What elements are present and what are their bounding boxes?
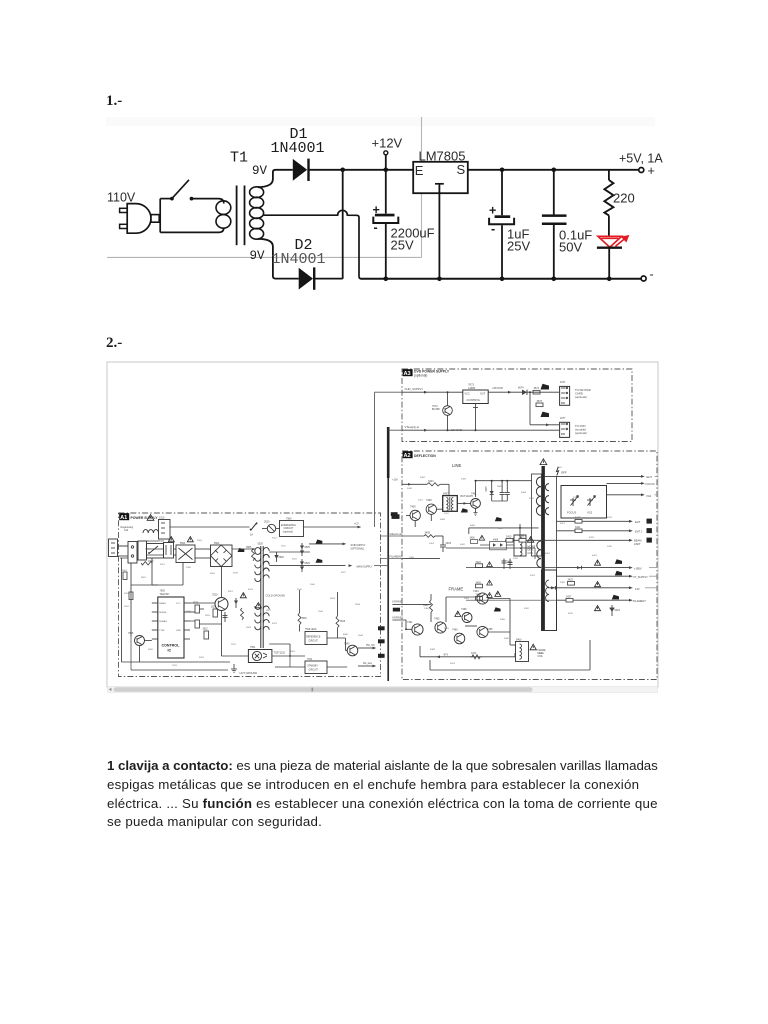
svg-text:3507: 3507 xyxy=(160,564,166,566)
svg-text:2409: 2409 xyxy=(461,479,467,481)
posistor xyxy=(262,521,280,533)
A1 dash-dot box xyxy=(119,513,381,677)
IC pins right xyxy=(184,603,190,639)
svg-text:Rst_Gen: Rst_Gen xyxy=(363,662,373,665)
resistor 3674 xyxy=(533,387,540,394)
junction dot C2 ground xyxy=(500,277,505,282)
svg-text:3510: 3510 xyxy=(264,521,270,524)
svg-text:5407: 5407 xyxy=(443,493,449,496)
plug prong top xyxy=(120,208,128,212)
resistor boxes left xyxy=(123,562,152,600)
warning frame coil xyxy=(530,644,536,650)
wire LED to ground xyxy=(608,248,610,279)
capacitor C2 top plate xyxy=(495,215,511,218)
svg-text:BUT11APX: BUT11APX xyxy=(461,495,474,498)
svg-text:(optional): (optional) xyxy=(575,431,587,435)
main vertical bus xyxy=(387,429,389,681)
junction dot C3 top xyxy=(552,168,557,173)
wire beam limit row xyxy=(505,536,652,546)
svg-text:3544: 3544 xyxy=(330,598,336,600)
capacitor C1 top plate xyxy=(375,214,395,217)
wire VT supply row xyxy=(557,571,658,579)
svg-text:A1: A1 xyxy=(120,515,127,521)
svg-text:3462: 3462 xyxy=(524,608,530,610)
svg-text:(optional): (optional) xyxy=(414,373,427,377)
svg-text:2504: 2504 xyxy=(197,540,203,542)
line filter small box xyxy=(164,543,174,559)
svg-text:3461: 3461 xyxy=(444,628,450,630)
zigzag mid xyxy=(241,608,244,620)
svg-text:6402: 6402 xyxy=(460,544,466,546)
gap wire filament xyxy=(381,557,403,559)
svg-text:2404: 2404 xyxy=(429,543,435,545)
svg-text:TCET1103: TCET1103 xyxy=(274,652,286,655)
terminal output plus circle xyxy=(639,168,644,173)
svg-text:3540: 3540 xyxy=(310,584,316,586)
heatsink flag frame xyxy=(494,607,501,611)
svg-text:1500: 1500 xyxy=(145,549,151,551)
transistor 7674 xyxy=(432,392,452,430)
secondary winding loop 2 xyxy=(250,197,264,208)
main vertical bus thick part xyxy=(387,427,390,478)
resistor 3546 xyxy=(336,592,346,638)
svg-text:L4960: L4960 xyxy=(468,386,476,390)
svg-text:6520: 6520 xyxy=(279,556,285,559)
wire VG2 row xyxy=(607,493,658,497)
svg-text:VTsupply-H: VTsupply-H xyxy=(405,425,419,429)
svg-text:OUT: OUT xyxy=(480,393,486,396)
gray artifact vertical line xyxy=(421,117,423,257)
optocoupler xyxy=(248,646,285,662)
A2 tag xyxy=(403,451,413,459)
focus box xyxy=(561,486,607,519)
left tag frame xyxy=(393,608,400,612)
warning transformer xyxy=(187,537,193,542)
hot ground symbol xyxy=(231,664,257,675)
svg-text:3474: 3474 xyxy=(471,652,477,655)
svg-text:6522: 6522 xyxy=(292,559,298,561)
svg-text:VCC: VCC xyxy=(465,393,470,396)
warning mid a xyxy=(240,593,246,598)
svg-text:2416: 2416 xyxy=(513,558,519,560)
wire switch to primary xyxy=(192,199,224,204)
connector keypad label xyxy=(575,388,591,399)
wire VT supply H xyxy=(402,425,559,431)
svg-text:3406: 3406 xyxy=(470,538,476,540)
A1 border tag a xyxy=(378,626,385,630)
wire C3 to ground xyxy=(553,225,555,279)
svg-text:POWER SUPPLY: POWER SUPPLY xyxy=(131,516,159,520)
secondary winding loop 5 xyxy=(250,228,264,239)
svg-text:6674: 6674 xyxy=(518,386,524,389)
svg-text:3474: 3474 xyxy=(450,663,456,665)
svg-text:3426: 3426 xyxy=(476,581,482,584)
sub supply arrow xyxy=(309,543,366,551)
svg-text:FOCUS: FOCUS xyxy=(567,511,576,515)
svg-text:2506: 2506 xyxy=(186,567,192,569)
wire branch to connector 2 xyxy=(529,391,559,426)
wire mid row line xyxy=(469,527,539,534)
wire frame bottom xyxy=(430,640,590,670)
svg-text:2423: 2423 xyxy=(506,536,512,539)
frame coil labels xyxy=(538,649,547,658)
svg-text:Video/mute: Video/mute xyxy=(390,532,404,536)
svg-text:(optional): (optional) xyxy=(283,530,293,533)
transistor 7605 xyxy=(128,632,145,646)
resistor cluster 3428 xyxy=(466,593,557,601)
wire frame mid xyxy=(465,599,510,633)
OFF bolt xyxy=(557,467,567,476)
wire A3 feed vertical xyxy=(374,392,376,527)
wire energizing out xyxy=(304,522,362,528)
svg-text:3419: 3419 xyxy=(589,537,595,539)
gap wire video xyxy=(381,535,403,537)
svg-text:2520: 2520 xyxy=(186,611,192,613)
chopper transformer 5520 xyxy=(255,543,269,648)
svg-text:3515: 3515 xyxy=(205,615,211,617)
svg-text:2465: 2465 xyxy=(500,619,506,621)
svg-text:7461: 7461 xyxy=(407,621,413,624)
wire opto right xyxy=(272,655,305,657)
sense resistor wires xyxy=(190,612,222,624)
wires ic to fet xyxy=(190,603,222,656)
svg-text:3423: 3423 xyxy=(519,536,525,539)
svg-text:2509: 2509 xyxy=(233,573,239,575)
plug nub xyxy=(151,215,159,223)
wire chopper right top xyxy=(269,552,345,566)
sprinkle labels A2 xyxy=(407,467,613,655)
diode D1 triangle xyxy=(293,159,307,181)
warning A1 xyxy=(147,515,154,521)
capacitor C3 plate top xyxy=(542,214,567,217)
warning filter xyxy=(168,537,174,542)
svg-text:CTRL: CTRL xyxy=(159,630,165,632)
diode pair 6526 xyxy=(300,559,311,572)
wire +12V down xyxy=(385,155,387,170)
secondary winding loop 4 xyxy=(250,218,264,229)
switch SW1 contact left xyxy=(170,197,174,201)
wire secondary bottom to D2 xyxy=(258,239,299,279)
AC inlet connector xyxy=(120,541,147,563)
svg-text:6540: 6540 xyxy=(343,634,349,636)
s-correction caps xyxy=(502,559,513,570)
svg-text:HOT GROUND: HOT GROUND xyxy=(240,671,258,675)
svg-text:3501: 3501 xyxy=(141,577,147,579)
wires standby xyxy=(327,638,347,667)
svg-text:2402: 2402 xyxy=(420,477,426,479)
svg-text:7580: 7580 xyxy=(286,517,292,520)
svg-text:3422: 3422 xyxy=(476,561,482,564)
flyback right rail xyxy=(556,476,558,600)
flyback right marks xyxy=(545,484,549,515)
reference circuit box xyxy=(305,628,327,644)
junction dot D1 node xyxy=(340,168,345,173)
svg-text:+5V, 1A: +5V, 1A xyxy=(619,151,663,165)
svg-text:+5P-DVD: +5P-DVD xyxy=(492,386,503,390)
svg-text:A2: A2 xyxy=(404,453,411,459)
svg-text:PW_ON: PW_ON xyxy=(366,645,375,647)
svg-text:3524: 3524 xyxy=(199,657,205,659)
svg-text:REFERENCE: REFERENCE xyxy=(306,636,321,638)
svg-text:SENSE: SENSE xyxy=(159,612,167,614)
secondary winding loop 1 xyxy=(250,187,264,198)
svg-text:3427: 3427 xyxy=(566,596,572,599)
gray artifact horizontal line xyxy=(107,256,422,258)
flyback primary winding xyxy=(536,477,541,515)
svg-text:+CV: +CV xyxy=(354,522,359,525)
wire D2 to node xyxy=(314,278,343,280)
junction dot +12V xyxy=(384,168,389,173)
svg-text:6412: 6412 xyxy=(498,528,504,530)
svg-text:6527: 6527 xyxy=(341,572,347,574)
svg-text:2A: 2A xyxy=(250,534,253,537)
svg-text:3417: 3417 xyxy=(560,523,566,525)
switch SW1 blade xyxy=(172,180,189,199)
svg-text:3412: 3412 xyxy=(444,513,450,515)
wire resistor top xyxy=(608,170,610,180)
diode D2 triangle xyxy=(299,268,313,290)
rst gen arrow xyxy=(358,662,376,667)
wire switch feed xyxy=(160,198,170,200)
flyback secondary winding xyxy=(537,541,541,567)
transformer T1 core line left xyxy=(236,186,238,246)
energizing circuit box xyxy=(280,517,304,536)
svg-text:2460: 2460 xyxy=(424,608,430,610)
cap mid xyxy=(223,612,228,622)
svg-text:7464: 7464 xyxy=(473,590,479,593)
capacitor C3 plate bottom xyxy=(542,223,567,226)
terminal output minus circle xyxy=(641,276,646,281)
scrollbar left arrow xyxy=(109,688,112,692)
svg-text:7520: 7520 xyxy=(212,594,218,597)
cap 2402b xyxy=(492,481,510,501)
svg-text:7460: 7460 xyxy=(452,629,458,632)
svg-text:-: - xyxy=(374,221,378,235)
svg-text:VT_SUPPLY: VT_SUPPLY xyxy=(633,575,648,579)
plug P1 body xyxy=(127,204,151,234)
LED D3 inner line xyxy=(602,237,619,239)
svg-text:LIMIT: LIMIT xyxy=(634,542,641,546)
heatsink flag bridge xyxy=(238,548,245,552)
svg-text:IC: IC xyxy=(168,649,172,653)
wire cathodes vertical xyxy=(342,170,344,279)
svg-text:+12V-DVD: +12V-DVD xyxy=(449,428,462,432)
A1 border tag b xyxy=(378,639,385,643)
svg-text:VG2: VG2 xyxy=(587,511,593,515)
svg-text:2463: 2463 xyxy=(539,653,545,655)
bridge rectifier xyxy=(211,542,233,567)
degauss coil loops xyxy=(143,530,159,533)
transistor 7461 xyxy=(407,621,423,635)
svg-text:5504: 5504 xyxy=(180,542,186,545)
connector dvd label xyxy=(575,424,587,435)
svg-text:7545 LEAK: 7545 LEAK xyxy=(305,628,317,631)
IC pins left xyxy=(152,602,181,639)
wire opto left xyxy=(222,655,249,657)
resistor 6423 xyxy=(610,605,621,616)
svg-text:5502: 5502 xyxy=(168,540,174,542)
paragraph text xyxy=(107,757,747,833)
svg-text:FILAMENT: FILAMENT xyxy=(390,554,403,558)
cap 2403 xyxy=(440,536,452,552)
wire 13V row xyxy=(548,586,657,591)
svg-text:3463: 3463 xyxy=(430,649,436,651)
svg-text:3404: 3404 xyxy=(428,480,434,483)
line filter transformer xyxy=(176,542,195,563)
wire filament row xyxy=(402,557,440,559)
heatsink flag line2 xyxy=(495,517,502,521)
AC plug outside xyxy=(109,539,129,557)
svg-text:E: E xyxy=(415,163,424,178)
svg-text:EHT: EHT xyxy=(647,475,653,479)
degauss connector xyxy=(159,516,171,539)
svg-text:1671: 1671 xyxy=(560,381,566,384)
wire 185V row xyxy=(557,559,658,570)
diode pair 6525 xyxy=(300,543,311,556)
svg-text:7540: 7540 xyxy=(344,643,350,646)
junction dot LED ground xyxy=(607,277,612,282)
heatsink flag A3 top xyxy=(541,384,550,390)
scrollbar tick xyxy=(312,688,314,692)
svg-text:-67V: -67V xyxy=(443,653,448,656)
flyback outline xyxy=(532,474,542,556)
svg-text:MAIN SUPPLY: MAIN SUPPLY xyxy=(357,566,373,569)
regulator U1 LM7805 box xyxy=(413,162,468,193)
wire C2 top xyxy=(501,170,503,216)
svg-text:7428: 7428 xyxy=(426,499,432,502)
wire -67V xyxy=(420,646,515,658)
wire filament row right xyxy=(557,595,647,603)
svg-text:+185V: +185V xyxy=(634,567,642,571)
degaussing coil label xyxy=(121,526,134,532)
svg-text:FRAME: FRAME xyxy=(449,587,464,592)
svg-text:+: + xyxy=(648,164,655,178)
svg-text:2528: 2528 xyxy=(172,665,178,667)
svg-text:2545: 2545 xyxy=(318,611,324,613)
svg-text:7462: 7462 xyxy=(434,618,440,621)
left edge tag A2 xyxy=(392,514,400,519)
svg-text:25V: 25V xyxy=(507,239,530,254)
gap tag xyxy=(391,512,398,516)
resistor R1 zigzag xyxy=(604,180,613,215)
svg-text:1N4001: 1N4001 xyxy=(272,251,326,268)
pw on arrow xyxy=(358,645,376,649)
svg-text:7409: 7409 xyxy=(410,505,416,508)
heatsink flag supply a xyxy=(316,540,323,544)
svg-text:3551: 3551 xyxy=(290,651,296,653)
svg-text:OFF: OFF xyxy=(561,470,567,474)
svg-text:COIL: COIL xyxy=(528,552,534,555)
svg-text:2502: 2502 xyxy=(124,606,130,608)
svg-text:3522: 3522 xyxy=(203,629,209,631)
svg-text:6425: 6425 xyxy=(568,613,574,615)
svg-text:6503: 6503 xyxy=(248,589,254,591)
svg-text:6415: 6415 xyxy=(557,467,563,469)
svg-text:3674: 3674 xyxy=(534,387,540,390)
flyback warning triangle xyxy=(540,459,547,465)
LED D3 cathode bar xyxy=(597,247,622,249)
svg-text:9V: 9V xyxy=(252,164,268,178)
svg-text:3421: 3421 xyxy=(575,526,581,529)
capacitor C2 cup xyxy=(489,218,514,224)
svg-text:2501: 2501 xyxy=(122,570,128,572)
svg-text:-: - xyxy=(650,268,654,282)
wire CHD supply xyxy=(402,387,463,393)
wire bridge to chopper xyxy=(232,548,256,550)
svg-text:5520: 5520 xyxy=(258,543,264,546)
svg-text:BC368: BC368 xyxy=(432,408,440,411)
svg-text:13V: 13V xyxy=(635,587,640,591)
A3 dash-dot box xyxy=(402,369,632,442)
A1 bottom rail xyxy=(131,637,305,670)
svg-text:(optional): (optional) xyxy=(575,395,587,399)
svg-text:A3: A3 xyxy=(404,371,411,377)
top rail wire xyxy=(309,169,639,171)
svg-text:2511: 2511 xyxy=(281,546,286,548)
wire filter to bridge xyxy=(147,549,211,558)
svg-text:-: - xyxy=(491,222,495,236)
svg-text:7466: 7466 xyxy=(461,608,467,611)
resistor 3474 xyxy=(470,652,482,659)
svg-text:CHD_SUPPLY: CHD_SUPPLY xyxy=(405,387,424,391)
svg-text:2425: 2425 xyxy=(560,582,566,584)
heatsink flag 7401 xyxy=(461,508,468,512)
svg-text:6526: 6526 xyxy=(305,562,311,565)
A1 border tag c xyxy=(378,654,385,658)
U1 middle pin wire to ground xyxy=(438,184,440,279)
diode mid xyxy=(234,598,238,608)
svg-text:3465: 3465 xyxy=(423,604,429,607)
svg-text:3512: 3512 xyxy=(272,538,278,540)
svg-text:2411: 2411 xyxy=(418,500,423,502)
resistor 3425 xyxy=(568,579,575,586)
svg-text:5404: 5404 xyxy=(521,492,527,494)
LED D3 arrow xyxy=(616,236,629,246)
mains switch box xyxy=(147,540,165,563)
svg-text:3548: 3548 xyxy=(358,635,364,637)
resistor 3545 xyxy=(298,590,307,632)
degauss switch blade xyxy=(250,523,258,537)
svg-text:6408: 6408 xyxy=(493,540,499,542)
warning frame b xyxy=(455,611,461,616)
svg-text:6422: 6422 xyxy=(592,555,598,557)
left column wires xyxy=(122,558,231,662)
warning frame a xyxy=(495,591,501,596)
junction vdrive xyxy=(405,628,407,630)
svg-text:2408: 2408 xyxy=(507,561,513,564)
svg-text:2524: 2524 xyxy=(246,627,252,629)
svg-text:COIL: COIL xyxy=(538,656,544,658)
svg-text:3408: 3408 xyxy=(407,488,413,490)
svg-text:6504: 6504 xyxy=(214,542,220,545)
svg-text:CONTROL: CONTROL xyxy=(467,398,481,402)
cap 2401 xyxy=(500,481,505,501)
wire secondary top to D1 xyxy=(258,170,293,187)
svg-text:2544: 2544 xyxy=(355,604,361,606)
warning 13v xyxy=(595,582,601,587)
resistor cluster 3426 xyxy=(476,580,493,588)
diode D2 cathode bar xyxy=(313,267,315,289)
svg-text:DEFLECTION: DEFLECTION xyxy=(414,454,436,458)
svg-text:7544: 7544 xyxy=(307,659,313,661)
A2 misc labels xyxy=(420,477,566,665)
svg-text:VCC: VCC xyxy=(176,603,181,605)
A3 title xyxy=(414,370,450,378)
svg-text:110V: 110V xyxy=(107,191,136,205)
svg-text:6405: 6405 xyxy=(470,525,476,527)
svg-text:2540: 2540 xyxy=(297,589,303,591)
svg-text:7551: 7551 xyxy=(250,646,256,649)
